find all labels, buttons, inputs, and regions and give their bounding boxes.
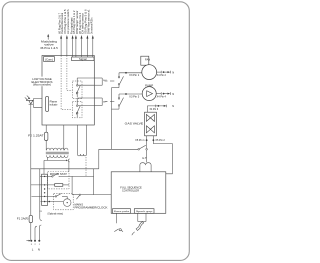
connector spark [134, 209, 154, 214]
connector X4 pins 1-2 [94, 78, 114, 85]
wire X5 pin 2 to controller [153, 140, 172, 174]
node on external PCB input [91, 17, 94, 57]
node X5 pin 1 [135, 136, 147, 142]
spark electrodes [132, 213, 146, 235]
svg-text:N: N [172, 93, 174, 96]
relay K1 [72, 78, 94, 99]
wire bus to gas switch [99, 148, 138, 150]
resistor R1 anticipator [31, 184, 69, 187]
svg-text:PROGRAMMER/CLOCK: PROGRAMMER/CLOCK [75, 207, 108, 210]
transformer T1 [46, 125, 69, 158]
pump M2 [142, 84, 156, 101]
wire transformer secondary [44, 157, 70, 174]
svg-text:GAS VALVE: GAS VALVE [125, 123, 144, 126]
wire pump to neutral [156, 92, 174, 98]
node overheat stat input [58, 12, 64, 55]
box U1 low voltage electronics [42, 56, 94, 126]
wire modulating valve arrow [47, 34, 49, 40]
svg-text:N: N [172, 71, 174, 74]
node air pressure switch input [64, 9, 70, 56]
node modulating valve label [40, 41, 58, 50]
svg-text:Spark gap: Spark gap [136, 211, 154, 213]
connector (Com) [44, 57, 55, 62]
svg-text:(Optional extras): (Optional extras) [48, 213, 64, 216]
ignition coil HT [140, 150, 151, 172]
relay contact S1 fan [112, 72, 142, 88]
svg-text:Signal: Signal [79, 58, 87, 61]
svg-text:CONTROLLER: CONTROLLER [122, 188, 139, 192]
border frame [2, 2, 189, 261]
connector X1 terminal strip [39, 174, 47, 213]
fan M1 [141, 56, 157, 79]
diode D1 flame sensor [25, 96, 33, 105]
wire left bus [30, 104, 32, 215]
relay contact S2 pump [112, 93, 143, 109]
svg-text:N: N [38, 248, 40, 252]
svg-text:X4 P: X4 P [103, 102, 107, 104]
svg-text:indicator: indicator [50, 103, 58, 106]
svg-text:X5 Pin 2: X5 Pin 2 [155, 140, 165, 142]
gas valve GV1 [125, 112, 157, 136]
flame sense electrode [114, 213, 123, 231]
wire neutral drop with disconnect [39, 169, 42, 241]
inductor L1 mains coil [78, 125, 87, 156]
wire dashed control line 2 [61, 56, 72, 110]
switch S3 gas valve [138, 140, 148, 150]
svg-text:Flame: Flame [50, 102, 58, 104]
connector Signal [72, 57, 94, 61]
box programmer clock [48, 194, 108, 216]
flame indicator [46, 96, 58, 111]
box U2 full sequence controller [111, 172, 166, 214]
wire dashed control line 1 [67, 56, 73, 91]
wire main bus from relays [111, 88, 113, 150]
svg-text:X3 Pin 1: X3 Pin 1 [129, 75, 140, 77]
node low voltage electronics label [30, 77, 54, 87]
connector flame probe [113, 209, 131, 214]
svg-text:X5 Pin 1: X5 Pin 1 [135, 140, 145, 142]
wire gas valve to neutral [147, 105, 174, 113]
svg-text:X4 Pin 6: X4 Pin 6 [150, 109, 159, 111]
svg-text:X4 Pin 4: X4 Pin 4 [157, 97, 167, 99]
connector X4 pins 3-4 [94, 98, 114, 106]
wire bus down to controller feed [93, 169, 95, 195]
svg-text:FAN: FAN [145, 57, 150, 61]
node CH temp sensor input [79, 12, 85, 57]
wire dashed drop to room stat line [85, 157, 87, 176]
switch S6 programmer feed [72, 176, 111, 199]
node mains terminals [26, 240, 40, 252]
node DHW temp sensor input [73, 10, 79, 57]
wire fan to neutral [157, 71, 175, 77]
svg-text:X4 Pin 2: X4 Pin 2 [157, 75, 167, 77]
node X5 pin 2 [153, 136, 166, 142]
wire room stat output [59, 175, 94, 177]
wire live drop [35, 226, 37, 240]
svg-text:(Micro-controller): (Micro-controller) [33, 84, 51, 87]
svg-text:Flame probe: Flame probe [114, 211, 131, 213]
switch S4 room stat [40, 173, 60, 177]
relay K2 [72, 98, 94, 118]
node DHW flow sensor input [85, 9, 91, 57]
wire bus jog down [98, 149, 100, 169]
svg-text:F1 2A(F): F1 2A(F) [17, 218, 29, 221]
node flow signal input [70, 17, 73, 57]
clock motor M3 [41, 199, 72, 207]
box room stat [48, 172, 69, 189]
svg-text:36 Pins 1 & 5: 36 Pins 1 & 5 [40, 47, 58, 50]
wire flame sensor bracket [34, 99, 43, 108]
svg-text:X3 Pin 3: X3 Pin 3 [129, 96, 140, 98]
svg-text:N: N [172, 105, 174, 108]
svg-text:On external PCB x: On external PCB x [91, 17, 94, 34]
fuse F1 [17, 215, 33, 240]
fuse F2 [28, 125, 48, 141]
switch S5 programmer [32, 194, 68, 199]
svg-text:(Com): (Com) [45, 58, 53, 61]
wire long mains horizontal [31, 168, 99, 170]
